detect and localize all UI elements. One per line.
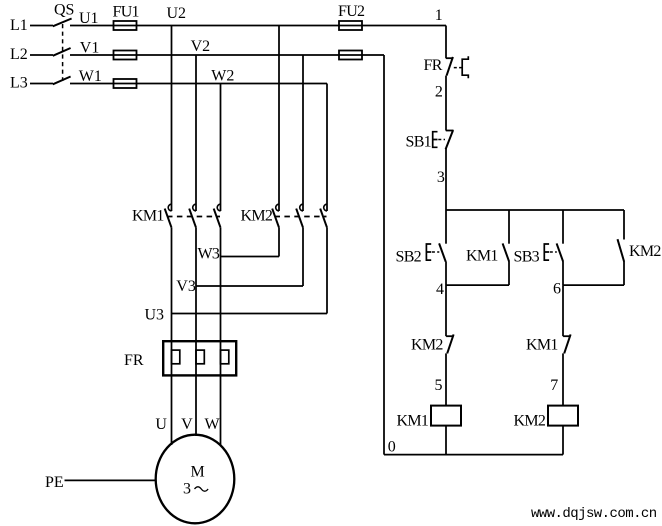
svg-text:3: 3 xyxy=(183,481,191,498)
svg-text:0: 0 xyxy=(388,439,396,456)
svg-text:4: 4 xyxy=(436,281,444,298)
contactor KM2 interlock NC contact xyxy=(446,334,454,353)
wire L3 bus xyxy=(70,83,327,85)
pushbutton SB2 NO contact xyxy=(439,243,446,261)
wire V2 drop to KM1 xyxy=(195,55,197,211)
pushbutton SB3 operator xyxy=(544,244,549,260)
thermal relay FR NC dashed link xyxy=(454,67,462,69)
svg-text:KM2: KM2 xyxy=(629,243,661,260)
pushbutton SB3 NO contact xyxy=(557,243,564,261)
wire KM1 coil down xyxy=(445,426,447,455)
svg-text:L2: L2 xyxy=(10,46,28,63)
svg-text:SB2: SB2 xyxy=(396,249,422,266)
wire control left rail xyxy=(383,55,385,455)
svg-text:7: 7 xyxy=(550,377,558,394)
wire L1 lead xyxy=(30,25,53,27)
svg-text:KM2: KM2 xyxy=(514,413,546,430)
contactor KM1 linkage dashed xyxy=(167,216,220,218)
svg-text:W2: W2 xyxy=(211,68,234,85)
svg-text:V1: V1 xyxy=(80,40,100,57)
svg-text:6: 6 xyxy=(553,281,561,298)
wire KM1 phase W down xyxy=(220,228,222,446)
switch QS pole 1 xyxy=(53,19,72,27)
fuse FU1 pole 1 xyxy=(114,21,137,30)
contactor KM1 main contact 2 xyxy=(189,204,196,227)
contactor KM1 main contact 3 xyxy=(214,204,221,227)
switch QS linkage dashed xyxy=(62,24,64,81)
fuse FU1 pole 3 xyxy=(114,79,137,88)
pushbutton SB1 operator xyxy=(433,132,438,148)
svg-text:FU2: FU2 xyxy=(338,3,365,20)
fuse FU2 pole 1 xyxy=(339,21,362,30)
svg-text:M: M xyxy=(191,464,205,481)
wire L2 bus xyxy=(70,54,384,56)
svg-text:3: 3 xyxy=(437,169,445,186)
svg-text:QS: QS xyxy=(54,2,74,19)
svg-text:2: 2 xyxy=(435,84,443,101)
thermal relay FR heater 2 xyxy=(196,350,204,364)
thermal relay FR box xyxy=(163,341,236,375)
wire L3 lead xyxy=(30,83,53,85)
wire PE xyxy=(65,479,157,481)
wire V3 link xyxy=(196,285,303,287)
svg-text:U2: U2 xyxy=(167,5,187,22)
svg-text:L3: L3 xyxy=(10,75,28,92)
switch QS pole 3 xyxy=(53,77,71,85)
svg-text:5: 5 xyxy=(435,377,443,394)
switch QS pole 2 xyxy=(53,48,71,56)
wire KM2 contact2 down xyxy=(302,228,304,286)
wire rail 4 down xyxy=(445,262,447,337)
wire rail 2-3 xyxy=(445,149,447,244)
svg-text:V: V xyxy=(181,416,193,433)
wire KM1 aux branch top xyxy=(508,210,510,244)
pushbutton SB2 operator xyxy=(426,244,431,260)
svg-text:KM1: KM1 xyxy=(526,337,558,354)
wire rail 5 xyxy=(445,353,447,405)
wire KM1 aux branch bottom xyxy=(508,262,510,286)
wire SB3 branch top xyxy=(562,210,564,244)
wire W2 drop to KM1 xyxy=(220,84,222,212)
thermal relay FR heater 3 xyxy=(221,350,229,364)
pushbutton SB1 dashed link xyxy=(438,139,445,141)
wire SB3 branch bottom xyxy=(562,262,564,286)
wire U3 link xyxy=(172,313,328,315)
contactor KM1 interlock NC contact xyxy=(563,334,571,353)
wire V2 drop to KM2 xyxy=(302,55,304,211)
contactor KM2 main contact 2 xyxy=(296,204,303,227)
svg-text:1: 1 xyxy=(435,7,443,24)
wire KM2 coil down xyxy=(562,426,564,455)
fuse FU2 pole 2 xyxy=(339,51,362,60)
svg-text:L1: L1 xyxy=(10,17,28,34)
wire node 0 bottom bus xyxy=(384,454,563,456)
contactor KM2 linkage dashed xyxy=(275,216,327,218)
svg-text:FR: FR xyxy=(124,352,144,369)
svg-text:W: W xyxy=(205,416,221,433)
contactor KM2 main contact 1 xyxy=(272,204,279,227)
svg-text:KM1: KM1 xyxy=(397,413,429,430)
wire KM2 contact3 down xyxy=(326,228,328,314)
contactor KM2 aux NO contact xyxy=(618,239,625,261)
svg-text:SB1: SB1 xyxy=(406,134,432,151)
wire KM1 phase V down xyxy=(195,228,197,436)
wire branch 7 xyxy=(562,353,564,405)
svg-text:V3: V3 xyxy=(176,278,196,295)
svg-text:FR: FR xyxy=(424,57,443,74)
motor M circle xyxy=(156,435,235,524)
svg-text:KM2: KM2 xyxy=(411,337,443,354)
wire node 3 bus xyxy=(446,209,624,211)
svg-text:W3: W3 xyxy=(198,246,220,263)
wire W3 link xyxy=(221,256,280,258)
wire KM2 aux branch top xyxy=(623,210,625,240)
svg-text:KM1: KM1 xyxy=(132,208,164,225)
wire L1 bus xyxy=(70,25,446,27)
thermal relay FR NC contact xyxy=(446,57,454,76)
svg-text:KM2: KM2 xyxy=(241,208,273,225)
coil KM2 xyxy=(548,406,578,426)
wire rail 1-2 xyxy=(445,76,447,131)
svg-text:SB3: SB3 xyxy=(514,249,540,266)
svg-text:KM1: KM1 xyxy=(466,248,498,265)
fuse FU1 pole 2 xyxy=(114,51,137,60)
svg-text:FU1: FU1 xyxy=(113,4,140,21)
wire KM2 aux branch bottom xyxy=(623,262,625,286)
svg-text:U: U xyxy=(155,416,167,433)
svg-text:www.dqjsw.com.cn: www.dqjsw.com.cn xyxy=(531,506,657,522)
coil KM1 xyxy=(431,406,461,426)
wire U2 drop to KM1 xyxy=(171,26,173,212)
svg-text:U3: U3 xyxy=(145,307,165,324)
wire node 6 link xyxy=(563,284,624,286)
svg-text:U1: U1 xyxy=(79,10,99,27)
wire L2 lead xyxy=(30,54,53,56)
wire branch 6 down xyxy=(562,285,564,336)
wire KM1 phase U down xyxy=(171,228,173,445)
wire node 4 link xyxy=(446,284,509,286)
wire W2 drop to KM2 xyxy=(326,84,328,212)
thermal relay FR detector symbol xyxy=(462,56,468,78)
wire control rail top xyxy=(445,26,447,59)
pushbutton SB1 NC contact xyxy=(446,130,454,149)
contactor KM2 main contact 3 xyxy=(320,204,327,227)
pushbutton SB3 dashed link xyxy=(550,251,557,253)
contactor KM1 main contact 1 xyxy=(165,204,172,227)
wire U2 drop to KM2 xyxy=(278,26,280,212)
contactor KM1 aux NO contact xyxy=(503,243,510,261)
pushbutton SB2 dashed link xyxy=(432,251,439,253)
wire KM2 contact1 down xyxy=(278,228,280,257)
svg-text:W1: W1 xyxy=(79,68,102,85)
thermal relay FR heater 1 xyxy=(172,350,180,364)
svg-text:V2: V2 xyxy=(191,38,211,55)
svg-text:PE: PE xyxy=(45,474,64,491)
